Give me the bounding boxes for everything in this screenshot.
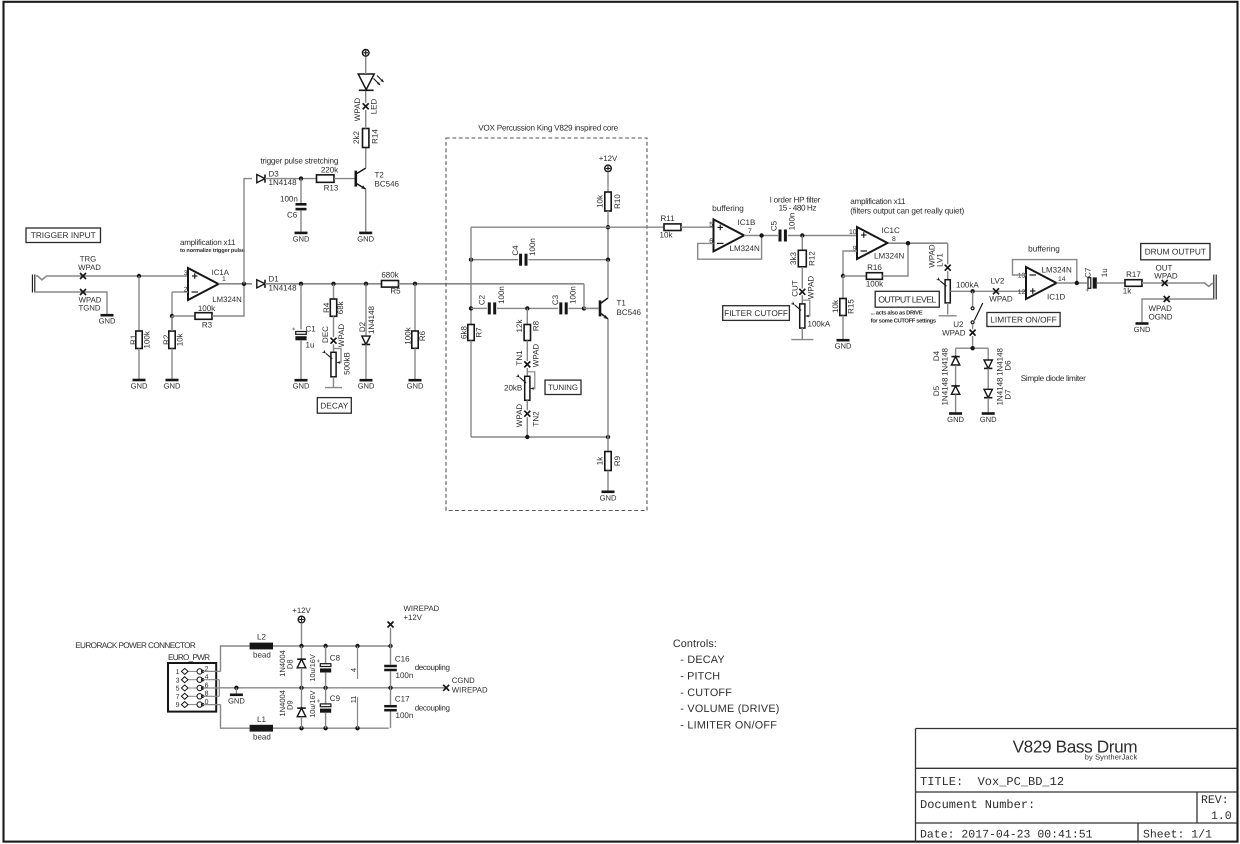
svg-text:100k: 100k	[142, 330, 151, 348]
svg-text:10u/16V: 10u/16V	[308, 690, 317, 717]
svg-text:WPAD: WPAD	[1154, 272, 1178, 281]
svg-text:- CUTOFF: - CUTOFF	[680, 687, 732, 699]
svg-text:OUTPUT LEVEL: OUTPUT LEVEL	[878, 294, 936, 304]
svg-text:for some CUTOFF settings: for some CUTOFF settings	[871, 318, 937, 325]
svg-text:BC546: BC546	[375, 180, 400, 189]
svg-text:1: 1	[176, 669, 180, 676]
svg-text:R5: R5	[390, 287, 401, 296]
svg-text:TGND: TGND	[78, 304, 100, 313]
svg-text:R9: R9	[613, 455, 622, 466]
svg-text:C17: C17	[395, 695, 410, 704]
svg-text:13: 13	[1018, 272, 1026, 279]
svg-text:T2: T2	[375, 171, 385, 180]
svg-text:10k: 10k	[175, 332, 184, 346]
svg-text:100n: 100n	[280, 195, 298, 204]
svg-text:L1: L1	[257, 715, 266, 724]
svg-text:3: 3	[176, 677, 180, 684]
svg-text:R2: R2	[162, 334, 171, 345]
svg-text:OGND: OGND	[1149, 313, 1173, 322]
svg-text:TUNING: TUNING	[548, 383, 578, 392]
svg-text:LM324N: LM324N	[874, 252, 904, 261]
svg-text:... acts also as DRIVE: ... acts also as DRIVE	[871, 310, 923, 317]
svg-text:+12V: +12V	[404, 613, 423, 622]
svg-text:1N4148: 1N4148	[940, 347, 949, 376]
svg-text:GND: GND	[358, 382, 375, 391]
svg-text:GND: GND	[947, 415, 964, 424]
svg-text:WPAD: WPAD	[806, 276, 815, 300]
svg-text:C8: C8	[330, 654, 341, 663]
svg-text:Sheet: 1/1: Sheet: 1/1	[1143, 829, 1212, 842]
svg-text:R13: R13	[324, 184, 339, 193]
svg-text:WPAD: WPAD	[515, 404, 524, 428]
svg-text:3: 3	[184, 270, 188, 277]
svg-text:trigger pulse stretching: trigger pulse stretching	[260, 157, 338, 166]
svg-text:(filters output can get really: (filters output can get really quiet)	[850, 207, 964, 216]
svg-text:10k: 10k	[831, 299, 840, 313]
svg-text:100kA: 100kA	[956, 280, 979, 289]
svg-text:decoupling: decoupling	[415, 704, 450, 713]
svg-text:1u: 1u	[306, 341, 315, 350]
svg-text:LV2: LV2	[991, 277, 1005, 286]
svg-text:amplification x11: amplification x11	[180, 238, 236, 247]
svg-text:1N4148: 1N4148	[940, 377, 949, 406]
svg-text:GND: GND	[293, 234, 310, 243]
svg-text:- VOLUME (DRIVE): - VOLUME (DRIVE)	[680, 703, 779, 715]
svg-text:C4: C4	[511, 245, 520, 256]
svg-text:CGND: CGND	[452, 676, 475, 685]
svg-text:R6: R6	[418, 330, 427, 341]
svg-text:C16: C16	[395, 655, 410, 664]
svg-text:- DECAY: - DECAY	[680, 654, 724, 666]
svg-text:220k: 220k	[321, 166, 339, 175]
svg-text:14: 14	[1058, 276, 1066, 283]
svg-text:GND: GND	[357, 234, 374, 243]
svg-text:10u/16V: 10u/16V	[308, 654, 317, 681]
svg-text:decoupling: decoupling	[415, 663, 450, 672]
svg-text:C1: C1	[306, 325, 317, 334]
svg-text:amplification x11: amplification x11	[850, 197, 906, 206]
svg-text:+: +	[317, 659, 321, 665]
svg-text:bead: bead	[253, 733, 271, 742]
svg-text:5: 5	[709, 221, 713, 228]
svg-text:D9: D9	[286, 700, 295, 710]
svg-text:C2: C2	[477, 294, 486, 305]
svg-text:12k: 12k	[515, 319, 524, 333]
svg-text:1u: 1u	[1100, 268, 1109, 277]
svg-text:Document Number:: Document Number:	[920, 798, 1035, 812]
svg-text:L2: L2	[257, 633, 266, 642]
svg-text:REV:: REV:	[1201, 794, 1229, 807]
svg-text:+12V: +12V	[292, 606, 311, 615]
svg-text:20kB: 20kB	[504, 384, 522, 393]
svg-text:WIREPAD: WIREPAD	[452, 686, 488, 695]
svg-text:R1: R1	[129, 334, 138, 345]
svg-text:WPAD: WPAD	[989, 295, 1013, 304]
svg-text:+: +	[292, 327, 296, 333]
svg-text:+: +	[1086, 288, 1090, 294]
svg-text:Controls:: Controls:	[673, 638, 717, 650]
svg-text:IC1D: IC1D	[1047, 293, 1065, 302]
svg-text:IC1B: IC1B	[738, 218, 756, 227]
svg-text:12: 12	[1018, 289, 1026, 296]
svg-text:WIREPAD: WIREPAD	[404, 604, 440, 613]
svg-text:LED: LED	[369, 98, 378, 114]
svg-text:100n: 100n	[787, 213, 796, 231]
svg-text:D1: D1	[269, 275, 280, 284]
svg-text:LM324N: LM324N	[1042, 265, 1072, 274]
svg-text:100k: 100k	[866, 280, 884, 289]
svg-text:Date: 2017-04-23 00:41:51: Date: 2017-04-23 00:41:51	[920, 829, 1093, 842]
svg-text:2k2: 2k2	[352, 131, 361, 144]
svg-text:C5: C5	[769, 220, 778, 231]
svg-text:68k: 68k	[336, 300, 345, 314]
svg-text:3k3: 3k3	[789, 252, 798, 265]
svg-text:T1: T1	[617, 299, 627, 308]
svg-text:- PITCH: - PITCH	[680, 671, 720, 683]
svg-text:R7: R7	[474, 327, 483, 338]
svg-text:10: 10	[849, 229, 857, 236]
svg-text:100n: 100n	[497, 286, 506, 304]
svg-text:IC1C: IC1C	[882, 226, 900, 235]
svg-text:TITLE: Vox_PC_BD_12: TITLE: Vox_PC_BD_12	[920, 775, 1064, 789]
svg-text:to normalize trigger pulse: to normalize trigger pulse	[180, 247, 245, 254]
svg-text:1N4148: 1N4148	[269, 178, 298, 187]
svg-text:D2: D2	[358, 321, 367, 332]
svg-text:1N4148: 1N4148	[269, 284, 298, 293]
svg-text:1: 1	[222, 276, 226, 283]
svg-text:100n: 100n	[528, 238, 537, 256]
svg-text:1k: 1k	[1123, 287, 1132, 296]
svg-text:GND: GND	[980, 415, 997, 424]
svg-text:100n: 100n	[396, 711, 414, 720]
svg-text:DECAY: DECAY	[320, 400, 348, 410]
svg-text:FILTER CUTOFF: FILTER CUTOFF	[724, 308, 788, 318]
svg-text:R16: R16	[867, 263, 882, 272]
svg-text:DRUM OUTPUT: DRUM OUTPUT	[1145, 247, 1206, 257]
svg-text:R14: R14	[370, 129, 379, 144]
svg-text:WPAD: WPAD	[532, 344, 541, 368]
svg-text:R3: R3	[202, 321, 213, 330]
svg-text:WPAD: WPAD	[353, 98, 362, 122]
svg-text:Simple diode limiter: Simple diode limiter	[1021, 374, 1086, 383]
svg-text:R11: R11	[660, 214, 675, 223]
svg-text:D7: D7	[1003, 389, 1012, 400]
svg-text:100n: 100n	[396, 671, 414, 680]
svg-text:EURO_PWR: EURO_PWR	[168, 653, 210, 662]
svg-text:9: 9	[176, 702, 180, 709]
svg-text:buffering: buffering	[712, 204, 744, 213]
svg-text:TRIGGER INPUT: TRIGGER INPUT	[31, 230, 96, 240]
svg-text:+: +	[317, 699, 321, 705]
svg-text:C9: C9	[330, 694, 341, 703]
svg-text:500kB: 500kB	[342, 352, 351, 375]
svg-text:TN1: TN1	[515, 350, 524, 366]
svg-text:1.0: 1.0	[1211, 810, 1232, 823]
svg-text:WPAD: WPAD	[337, 324, 346, 348]
svg-text:7: 7	[748, 228, 752, 235]
svg-text:D6: D6	[1003, 360, 1012, 371]
svg-text:WPAD: WPAD	[942, 329, 966, 338]
svg-text:BC546: BC546	[617, 308, 642, 317]
svg-text:GND: GND	[131, 382, 148, 391]
svg-text:GND: GND	[407, 382, 424, 391]
svg-text:buffering: buffering	[1028, 245, 1060, 254]
svg-text:7: 7	[176, 694, 180, 701]
svg-text:GND: GND	[600, 493, 617, 502]
svg-text:8: 8	[892, 236, 896, 243]
svg-text:TN2: TN2	[532, 411, 541, 427]
svg-text:R12: R12	[807, 251, 816, 266]
svg-text:10k: 10k	[660, 231, 674, 240]
svg-text:GND: GND	[835, 342, 852, 351]
svg-text:5: 5	[176, 686, 180, 693]
svg-text:bead: bead	[253, 651, 271, 660]
svg-text:100k: 100k	[198, 304, 216, 313]
svg-text:LM324N: LM324N	[730, 244, 760, 253]
svg-text:2: 2	[184, 286, 188, 293]
svg-text:15 - 480 Hz: 15 - 480 Hz	[779, 204, 817, 213]
svg-text:GND: GND	[228, 696, 245, 705]
svg-text:CUT: CUT	[790, 280, 799, 297]
svg-text:R4: R4	[322, 302, 331, 313]
svg-text:VOX Percussion King V829 inspi: VOX Percussion King V829 inspired core	[478, 124, 618, 133]
svg-text:4: 4	[349, 668, 358, 672]
svg-text:DEC: DEC	[321, 326, 330, 343]
svg-text:WPAD: WPAD	[78, 263, 101, 272]
svg-text:10k: 10k	[595, 194, 604, 208]
svg-text:LIMITER ON/OFF: LIMITER ON/OFF	[990, 314, 1056, 324]
svg-text:+12V: +12V	[599, 154, 618, 163]
svg-text:R15: R15	[846, 299, 855, 314]
svg-text:EURORACK POWER CONNECTOR: EURORACK POWER CONNECTOR	[75, 641, 196, 650]
svg-text:1N4148: 1N4148	[367, 305, 376, 334]
svg-text:C6: C6	[287, 211, 298, 220]
svg-text:R8: R8	[532, 320, 541, 331]
svg-text:LV1: LV1	[935, 253, 944, 267]
svg-text:680k: 680k	[381, 271, 399, 280]
svg-text:GND: GND	[164, 382, 181, 391]
svg-text:GND: GND	[99, 317, 116, 326]
svg-text:100k: 100k	[403, 326, 412, 344]
svg-text:R10: R10	[613, 194, 622, 209]
svg-text:GND: GND	[1134, 325, 1151, 334]
svg-text:by SyntherJack: by SyntherJack	[1085, 753, 1138, 762]
svg-text:IC1A: IC1A	[212, 268, 230, 277]
svg-text:LM324N: LM324N	[212, 295, 241, 304]
svg-text:D8: D8	[286, 659, 295, 669]
svg-text:100n: 100n	[568, 286, 577, 304]
svg-text:R17: R17	[1126, 270, 1141, 279]
svg-text:- LIMITER ON/OFF: - LIMITER ON/OFF	[680, 719, 777, 731]
svg-text:1k: 1k	[595, 456, 604, 465]
svg-text:11: 11	[349, 696, 358, 704]
svg-text:GND: GND	[293, 382, 310, 391]
svg-text:C7: C7	[1083, 267, 1092, 278]
svg-text:100kA: 100kA	[808, 320, 831, 329]
svg-text:6k8: 6k8	[459, 326, 468, 339]
svg-text:C3: C3	[551, 294, 560, 305]
